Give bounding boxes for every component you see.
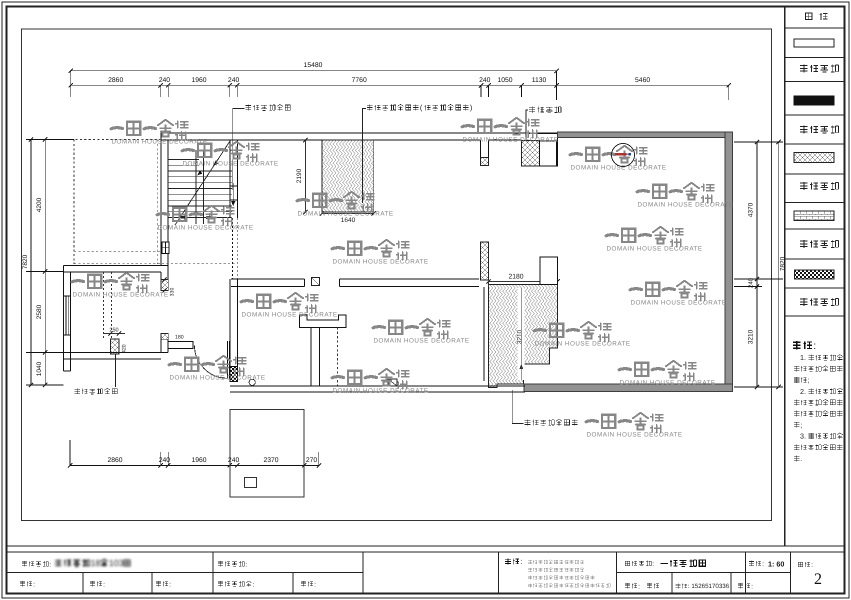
leader 拆除原有栏杆 [245, 105, 251, 111]
svg-text:2370: 2370 [263, 457, 278, 464]
bottom dimension row [70, 464, 319, 466]
svg-text:1: 60: 1: 60 [768, 560, 784, 569]
svg-text:270: 270 [306, 457, 318, 464]
legend swatch wooden wall [795, 270, 835, 279]
leader 切割原有下沉顶 [367, 105, 373, 111]
svg-text:1040: 1040 [36, 361, 43, 376]
left room bottom wall [64, 352, 169, 354]
svg-text:240: 240 [159, 77, 171, 84]
svg-text:1640: 1640 [341, 217, 356, 224]
legend label 拆除墙体 [800, 182, 807, 190]
box outline above (528.8,133.5) [529, 134, 558, 142]
stair right arrow down [232, 183, 234, 203]
legend swatch new brick wall [794, 211, 834, 221]
small grid box on stair wall [162, 242, 169, 254]
circle symbol on bottom wall [249, 379, 255, 385]
svg-text::: : [314, 581, 316, 588]
dotted void outline top-left [71, 139, 161, 141]
svg-text:2580: 2580 [36, 304, 43, 319]
svg-text::: : [811, 562, 813, 569]
title 施工单位 [218, 561, 223, 566]
demolition hatch column at 拆除至顶 [522, 141, 540, 166]
svg-text::: : [49, 561, 51, 568]
leader 拆除至顶 [529, 106, 535, 113]
top wall outer face [161, 132, 558, 134]
watermark units [111, 120, 208, 146]
right extension lines [734, 141, 783, 143]
hatched strip x=481-488 [481, 242, 489, 280]
drawing frame [22, 29, 772, 521]
svg-text::: : [762, 561, 764, 568]
legend title 图例 [806, 13, 812, 19]
left room right wall + hatched bits [160, 272, 162, 280]
right dimension 7820 [778, 142, 780, 387]
dim 1640 [322, 213, 374, 215]
svg-text:240: 240 [228, 457, 240, 464]
svg-text:: 15265170336: : 15265170336 [688, 583, 730, 590]
svg-text:2190: 2190 [296, 168, 303, 183]
notes title 备注 [793, 341, 801, 349]
svg-text:1.: 1. [800, 353, 806, 362]
svg-text::: : [638, 583, 640, 590]
leader 拆除原有玻璃顶 [525, 419, 531, 425]
title row2 labels [20, 581, 25, 586]
svg-text:7820: 7820 [780, 256, 787, 271]
left room window [64, 296, 71, 335]
left dimension 7820 [30, 140, 32, 386]
left extension lines [26, 139, 74, 141]
dark block at wall base [230, 367, 238, 382]
svg-text:,: , [843, 398, 845, 407]
svg-text:3210: 3210 [517, 329, 524, 344]
svg-text:2: 2 [814, 571, 822, 588]
wall stub x=557.6 [557, 138, 559, 167]
svg-text:2860: 2860 [108, 77, 123, 84]
right dimension segments 4370/240/3210 [756, 142, 758, 387]
lower rectangle (porch) [230, 410, 304, 497]
svg-text:;: ; [807, 376, 809, 385]
white box at hatch top right [540, 257, 558, 285]
dotted flue traces [103, 272, 105, 339]
svg-text:.: . [800, 454, 802, 463]
stair upper short treads [168, 159, 199, 161]
stair direction diagonal arrow [175, 141, 230, 225]
blurred project name [55, 558, 130, 568]
svg-text:18: 18 [91, 558, 101, 568]
legend label 新砌砖墙 [800, 240, 807, 248]
svg-text::: : [33, 581, 35, 588]
gray balcony wall bottom [524, 384, 733, 392]
stair 下 label [206, 213, 212, 220]
svg-text:4200: 4200 [36, 197, 43, 212]
door bar right of left room [168, 342, 193, 349]
svg-text:5460: 5460 [635, 77, 650, 84]
small fixture on bottom wall [388, 379, 397, 386]
svg-text:3210: 3210 [748, 329, 755, 344]
svg-text:7760: 7760 [352, 77, 367, 84]
svg-text:2860: 2860 [107, 457, 122, 464]
svg-text:1130: 1130 [532, 77, 547, 84]
svg-text::: : [245, 561, 247, 568]
stair treads [168, 170, 232, 172]
white box next to hatch column [540, 141, 557, 166]
top wall niche verticals [480, 140, 482, 157]
stair 上 label [181, 215, 187, 222]
title block grid [7, 551, 845, 553]
svg-text:4370: 4370 [748, 202, 755, 217]
stair right wall upper (solid) [229, 140, 231, 218]
svg-text::: : [751, 583, 753, 590]
legend label 木质墙体 [800, 298, 807, 306]
svg-text:): ) [470, 103, 472, 112]
svg-text:3.: 3. [800, 432, 806, 441]
demolition hatch small (top niche) [481, 158, 489, 166]
title 图纸名称 一楼拆墙图 [625, 561, 630, 566]
chimney hatch [111, 339, 120, 354]
svg-text:420: 420 [122, 344, 128, 353]
legend label 原始墙体 [800, 64, 807, 72]
svg-text::: : [652, 561, 654, 568]
left dimension segments [44, 140, 46, 386]
svg-text:180: 180 [175, 335, 184, 341]
svg-text:1960: 1960 [191, 77, 206, 84]
svg-text:240: 240 [228, 77, 240, 84]
left room top wall [64, 265, 169, 267]
svg-text:7820: 7820 [22, 254, 29, 269]
stair center divider [195, 150, 197, 224]
svg-text:1050: 1050 [497, 77, 512, 84]
svg-text:;: ; [800, 420, 802, 429]
door leaf [227, 341, 229, 379]
dotted demolished wall trace [337, 327, 339, 388]
svg-text:240: 240 [479, 77, 491, 84]
top dimension segments [71, 84, 729, 86]
svg-text::: : [103, 581, 105, 588]
title row2 设计/电话/审核 [625, 583, 630, 588]
svg-text::: : [252, 581, 254, 588]
legend swatch original wall [794, 39, 834, 47]
title 图号 2 [798, 562, 803, 567]
svg-text::: : [520, 557, 522, 566]
big herringbone hatch (glass roof demolition) [489, 285, 558, 388]
small fixture box on wall [312, 278, 320, 286]
leader 拆除原有烟道 [75, 388, 80, 394]
wall left of big hatch [483, 287, 485, 381]
legend swatch load-bearing wall [794, 96, 834, 105]
door swing arc [195, 345, 228, 378]
stair right wall window ticks [230, 185, 238, 187]
legend column frame [784, 7, 786, 547]
svg-text:2.: 2. [800, 387, 806, 396]
gray balcony wall top [558, 132, 733, 138]
top wall inner face [161, 139, 481, 141]
svg-text::: : [813, 340, 816, 352]
white dim band through hatch [518, 288, 525, 380]
herringbone hatch 1640 (cut ceiling) [322, 140, 374, 212]
stair right wall lower dotted [232, 218, 234, 279]
small rect inside porch [244, 478, 256, 488]
middle horizontal wall 240 [231, 278, 305, 280]
stair left wall [160, 133, 162, 266]
center vertical wall [229, 279, 231, 367]
svg-text:103: 103 [109, 558, 124, 568]
bottom wall (thin part) [230, 385, 525, 387]
left room left wall [63, 266, 65, 372]
svg-text:2180: 2180 [508, 274, 523, 281]
dim 2190 vertical [305, 140, 307, 212]
top dimension 15480 [71, 70, 557, 72]
dim 2180 [489, 281, 558, 283]
title remark cell [505, 558, 511, 564]
title 比例 1:60 [749, 561, 754, 566]
T wall segment [300, 315, 347, 327]
svg-text:15480: 15480 [304, 62, 323, 69]
svg-text:330: 330 [170, 288, 176, 297]
gray balcony wall right [725, 132, 733, 392]
svg-text:1960: 1960 [191, 457, 206, 464]
title 工程名称 [22, 561, 27, 566]
svg-text::: : [169, 581, 171, 588]
circle stamp in right room [612, 144, 635, 167]
legend label 承重墙体 [800, 125, 807, 133]
legend swatch demolished wall [794, 153, 834, 163]
lower vertical wall [310, 327, 312, 386]
